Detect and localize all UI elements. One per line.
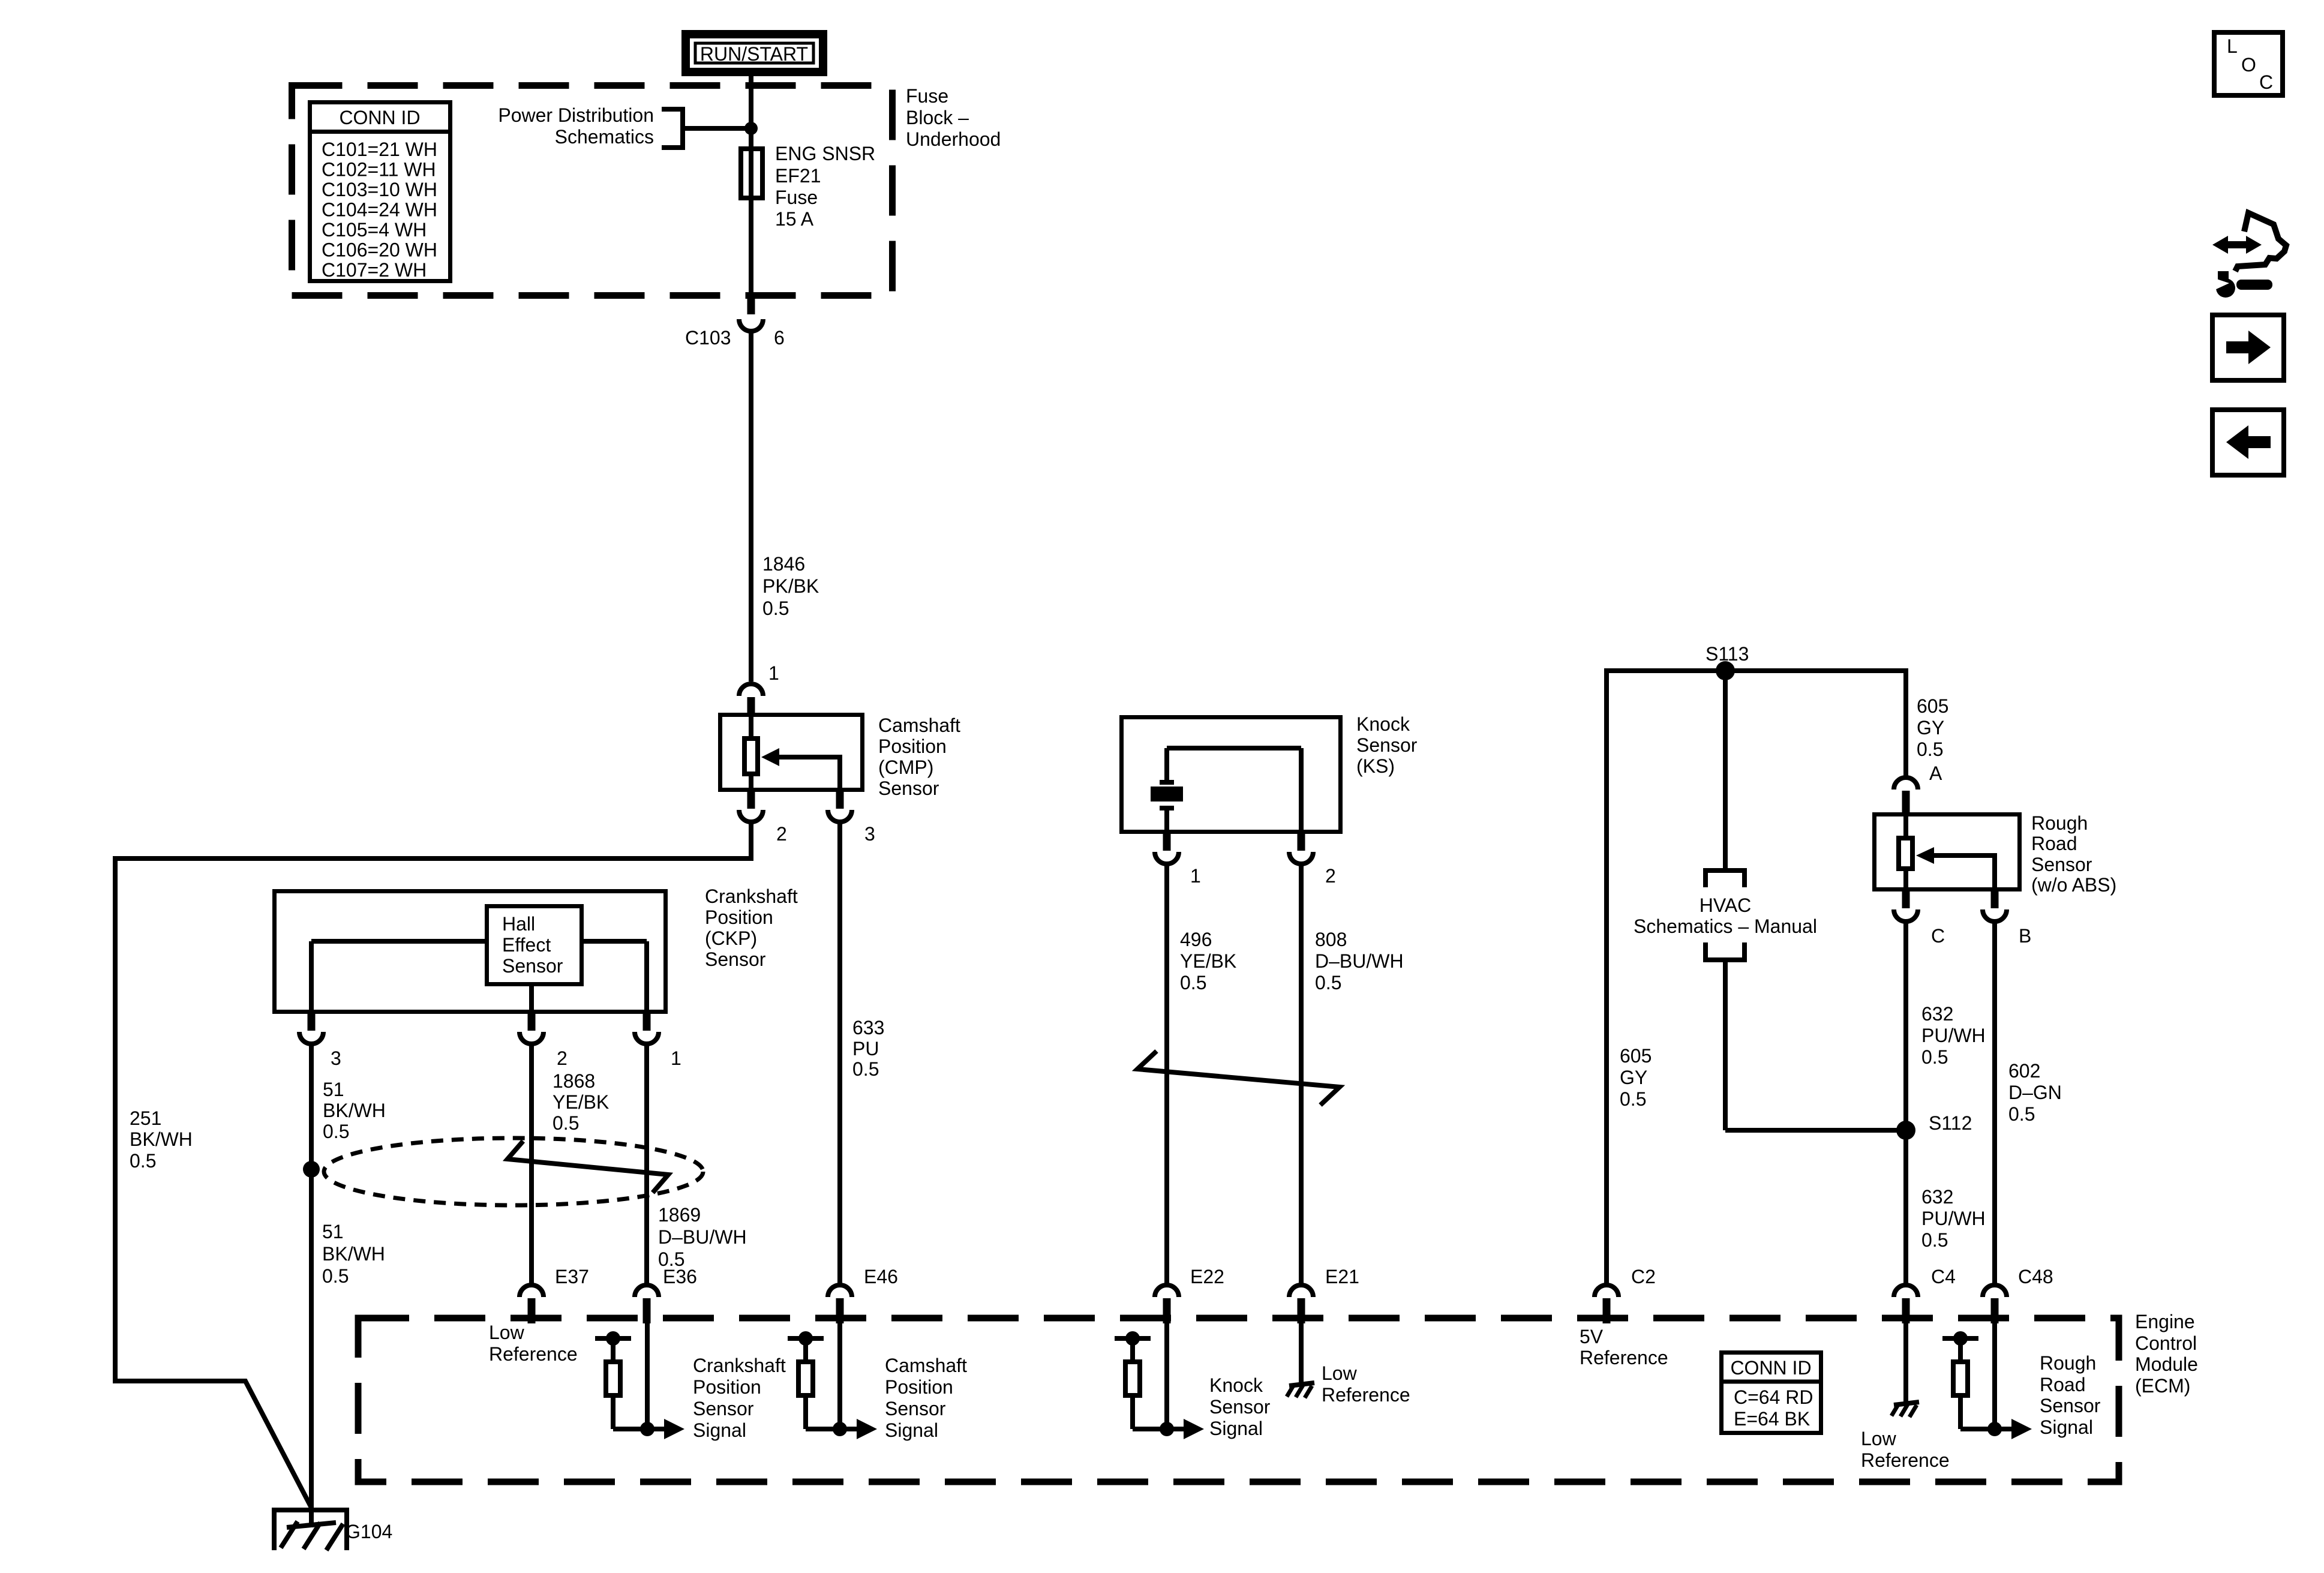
svg-text:PK/BK: PK/BK bbox=[762, 575, 819, 597]
svg-text:605: 605 bbox=[1620, 1045, 1652, 1067]
svg-text:Reference: Reference bbox=[1861, 1449, 1950, 1471]
svg-text:EF21: EF21 bbox=[775, 165, 821, 187]
svg-text:Hall: Hall bbox=[502, 913, 535, 935]
svg-text:0.5: 0.5 bbox=[553, 1112, 579, 1134]
svg-text:B: B bbox=[2019, 925, 2031, 947]
svg-text:633: 633 bbox=[852, 1017, 884, 1038]
svg-text:C107=2 WH: C107=2 WH bbox=[322, 259, 427, 281]
svg-text:Position: Position bbox=[885, 1376, 953, 1398]
svg-text:CONN ID: CONN ID bbox=[1730, 1357, 1811, 1379]
svg-text:PU: PU bbox=[852, 1038, 879, 1059]
svg-text:808: 808 bbox=[1315, 929, 1347, 950]
svg-text:5V: 5V bbox=[1580, 1326, 1604, 1347]
svg-text:C=64 RD: C=64 RD bbox=[1734, 1386, 1813, 1408]
svg-text:Sensor: Sensor bbox=[885, 1398, 946, 1419]
svg-text:PU/WH: PU/WH bbox=[1921, 1208, 1986, 1229]
svg-text:0.5: 0.5 bbox=[1315, 972, 1341, 993]
svg-text:3: 3 bbox=[331, 1047, 341, 1069]
svg-text:2: 2 bbox=[776, 823, 787, 845]
svg-text:RUN/START: RUN/START bbox=[700, 43, 808, 65]
svg-text:(CMP): (CMP) bbox=[878, 757, 933, 778]
svg-text:C104=24 WH: C104=24 WH bbox=[322, 199, 437, 221]
svg-text:Position: Position bbox=[693, 1376, 761, 1398]
svg-text:Sensor: Sensor bbox=[878, 778, 939, 799]
svg-text:0.5: 0.5 bbox=[1180, 972, 1206, 993]
svg-text:Rough: Rough bbox=[2040, 1352, 2096, 1374]
svg-text:C4: C4 bbox=[1931, 1266, 1956, 1287]
svg-text:Low: Low bbox=[489, 1322, 525, 1343]
svg-text:Signal: Signal bbox=[1209, 1418, 1263, 1439]
svg-text:Sensor: Sensor bbox=[502, 955, 563, 977]
svg-text:Low: Low bbox=[1322, 1362, 1358, 1384]
svg-text:Schematics: Schematics bbox=[555, 126, 654, 148]
svg-text:YE/BK: YE/BK bbox=[1180, 950, 1236, 972]
svg-text:0.5: 0.5 bbox=[2008, 1103, 2035, 1125]
svg-text:Low: Low bbox=[1861, 1428, 1897, 1449]
svg-text:602: 602 bbox=[2008, 1060, 2040, 1082]
svg-text:251: 251 bbox=[130, 1107, 161, 1129]
svg-text:2: 2 bbox=[1325, 865, 1336, 887]
svg-text:Schematics – Manual: Schematics – Manual bbox=[1634, 915, 1817, 937]
svg-text:C106=20 WH: C106=20 WH bbox=[322, 239, 437, 261]
svg-text:1846: 1846 bbox=[762, 553, 805, 575]
svg-text:C2: C2 bbox=[1631, 1266, 1656, 1287]
svg-text:632: 632 bbox=[1921, 1186, 1953, 1208]
svg-text:Engine: Engine bbox=[2135, 1311, 2195, 1332]
svg-text:D–BU/WH: D–BU/WH bbox=[658, 1226, 747, 1248]
svg-text:1: 1 bbox=[671, 1047, 681, 1069]
svg-text:S112: S112 bbox=[1929, 1112, 1972, 1134]
svg-text:C48: C48 bbox=[2018, 1266, 2053, 1287]
svg-text:C103=10 WH: C103=10 WH bbox=[322, 179, 437, 200]
svg-text:Sensor: Sensor bbox=[1356, 734, 1418, 756]
svg-text:0.5: 0.5 bbox=[1921, 1229, 1948, 1251]
svg-text:D–GN: D–GN bbox=[2008, 1082, 2062, 1103]
svg-text:BK/WH: BK/WH bbox=[130, 1128, 193, 1150]
svg-text:G104: G104 bbox=[346, 1521, 392, 1542]
svg-text:Position: Position bbox=[705, 906, 773, 928]
svg-text:0.5: 0.5 bbox=[852, 1058, 879, 1080]
svg-text:Reference: Reference bbox=[1322, 1384, 1410, 1406]
svg-text:Crankshaft: Crankshaft bbox=[693, 1355, 786, 1376]
svg-text:C101=21 WH: C101=21 WH bbox=[322, 139, 437, 160]
svg-text:Road: Road bbox=[2031, 833, 2077, 854]
svg-text:HVAC: HVAC bbox=[1700, 894, 1752, 916]
svg-text:0.5: 0.5 bbox=[1917, 739, 1943, 760]
svg-text:GY: GY bbox=[1917, 717, 1944, 739]
svg-text:496: 496 bbox=[1180, 929, 1212, 950]
svg-text:O: O bbox=[2241, 54, 2256, 76]
svg-text:Sensor: Sensor bbox=[705, 948, 766, 970]
svg-text:E36: E36 bbox=[663, 1266, 697, 1287]
svg-text:Knock: Knock bbox=[1209, 1374, 1263, 1396]
svg-text:Camshaft: Camshaft bbox=[878, 715, 960, 736]
svg-text:1868: 1868 bbox=[553, 1070, 595, 1092]
svg-text:Reference: Reference bbox=[489, 1343, 578, 1365]
svg-text:L: L bbox=[2227, 35, 2238, 57]
svg-text:15 A: 15 A bbox=[775, 208, 814, 230]
svg-text:Position: Position bbox=[878, 736, 947, 757]
svg-text:Module: Module bbox=[2135, 1353, 2198, 1375]
svg-text:A: A bbox=[1929, 763, 1942, 784]
svg-text:Road: Road bbox=[2040, 1374, 2086, 1395]
svg-text:Fuse: Fuse bbox=[775, 187, 818, 208]
svg-text:C102=11 WH: C102=11 WH bbox=[322, 159, 436, 181]
svg-text:0.5: 0.5 bbox=[322, 1265, 349, 1287]
svg-text:Knock: Knock bbox=[1356, 713, 1410, 735]
svg-text:C103: C103 bbox=[685, 327, 731, 349]
svg-text:1: 1 bbox=[1190, 865, 1201, 887]
svg-text:0.5: 0.5 bbox=[130, 1150, 156, 1172]
svg-text:(CKP): (CKP) bbox=[705, 927, 757, 949]
svg-text:51: 51 bbox=[323, 1079, 344, 1100]
svg-text:0.5: 0.5 bbox=[1921, 1046, 1948, 1068]
svg-text:PU/WH: PU/WH bbox=[1921, 1025, 1986, 1046]
svg-text:Signal: Signal bbox=[2040, 1416, 2093, 1438]
svg-text:Block –: Block – bbox=[906, 107, 969, 128]
svg-text:3: 3 bbox=[864, 823, 875, 845]
svg-text:605: 605 bbox=[1917, 695, 1948, 717]
svg-text:(ECM): (ECM) bbox=[2135, 1375, 2190, 1397]
svg-text:0.5: 0.5 bbox=[762, 598, 789, 619]
svg-text:E22: E22 bbox=[1190, 1266, 1224, 1287]
svg-text:632: 632 bbox=[1921, 1003, 1953, 1025]
svg-text:GY: GY bbox=[1620, 1067, 1647, 1088]
svg-text:C: C bbox=[1931, 925, 1945, 947]
svg-text:C: C bbox=[2259, 71, 2273, 93]
svg-text:ENG SNSR: ENG SNSR bbox=[775, 143, 875, 164]
svg-text:Sensor: Sensor bbox=[2031, 854, 2092, 875]
svg-text:E=64 BK: E=64 BK bbox=[1734, 1408, 1810, 1430]
svg-text:YE/BK: YE/BK bbox=[553, 1091, 609, 1113]
svg-text:Sensor: Sensor bbox=[2040, 1395, 2101, 1416]
svg-text:BK/WH: BK/WH bbox=[322, 1243, 385, 1265]
svg-text:2: 2 bbox=[557, 1047, 568, 1069]
svg-text:51: 51 bbox=[322, 1221, 344, 1242]
svg-text:Signal: Signal bbox=[885, 1419, 938, 1441]
svg-text:Sensor: Sensor bbox=[693, 1398, 754, 1419]
svg-text:(KS): (KS) bbox=[1356, 755, 1395, 777]
svg-text:0.5: 0.5 bbox=[1620, 1088, 1646, 1110]
svg-text:E37: E37 bbox=[555, 1266, 589, 1287]
svg-text:6: 6 bbox=[774, 327, 785, 349]
svg-text:Control: Control bbox=[2135, 1332, 2197, 1354]
svg-text:E21: E21 bbox=[1325, 1266, 1359, 1287]
svg-text:C105=4 WH: C105=4 WH bbox=[322, 219, 427, 241]
svg-text:Underhood: Underhood bbox=[906, 128, 1001, 150]
svg-text:Crankshaft: Crankshaft bbox=[705, 885, 798, 907]
svg-text:Fuse: Fuse bbox=[906, 85, 948, 107]
svg-text:Sensor: Sensor bbox=[1209, 1396, 1271, 1418]
svg-text:Reference: Reference bbox=[1580, 1347, 1668, 1368]
svg-text:Rough: Rough bbox=[2031, 812, 2088, 834]
svg-text:Signal: Signal bbox=[693, 1419, 746, 1441]
svg-text:1869: 1869 bbox=[658, 1204, 701, 1226]
svg-text:Power Distribution: Power Distribution bbox=[498, 104, 654, 126]
svg-text:D–BU/WH: D–BU/WH bbox=[1315, 950, 1404, 972]
svg-text:0.5: 0.5 bbox=[323, 1121, 349, 1142]
svg-text:1: 1 bbox=[768, 662, 779, 684]
svg-text:Camshaft: Camshaft bbox=[885, 1355, 967, 1376]
svg-text:E46: E46 bbox=[864, 1266, 898, 1287]
svg-text:(w/o ABS): (w/o ABS) bbox=[2031, 874, 2116, 896]
svg-text:CONN ID: CONN ID bbox=[339, 107, 420, 128]
svg-text:BK/WH: BK/WH bbox=[323, 1100, 386, 1121]
svg-text:Effect: Effect bbox=[502, 934, 551, 956]
